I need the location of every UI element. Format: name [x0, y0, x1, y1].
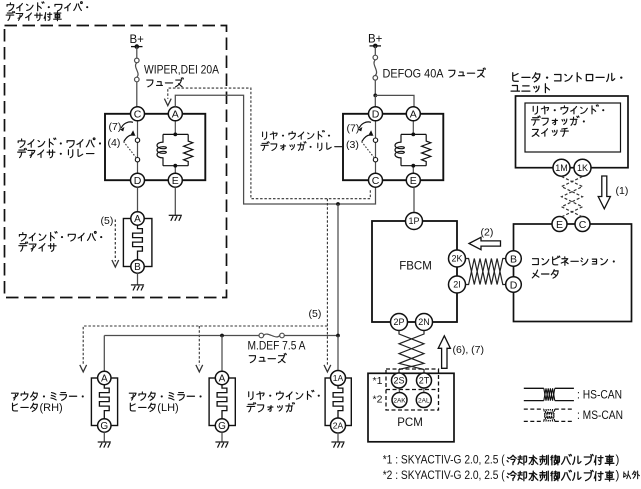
ground (de-icer): [131, 285, 144, 291]
FBCM terminal 1P: [406, 213, 423, 230]
flow arrow (6),(7): [438, 336, 450, 369]
relay K2 rear defogger terminal D: [369, 107, 383, 121]
wire drop to LH mirror heater: [221, 336, 223, 372]
FBCM box: [372, 221, 457, 322]
relay K2 rear defogger coil feed stubs: [412, 121, 414, 135]
de-icer terminal B: [131, 260, 144, 273]
svg-text:(3): (3): [346, 139, 359, 151]
FBCM terminal 2I: [449, 276, 466, 293]
svg-text:1K: 1K: [577, 163, 588, 173]
FBCM terminal 2K: [449, 250, 466, 267]
svg-text:G: G: [100, 421, 108, 432]
wire relay E to ground: [174, 187, 176, 215]
wire relay E to FBCM 1P: [413, 187, 415, 212]
svg-text:D: D: [134, 175, 142, 187]
node defog feed split: [373, 94, 377, 98]
svg-text:E: E: [172, 175, 179, 187]
relay K1 wiper de-icer switch contacts: [135, 138, 139, 142]
flow arrow (2): [469, 237, 501, 249]
wire 2S to 2AK: [398, 388, 401, 393]
svg-text:2S: 2S: [393, 376, 404, 386]
svg-text:(1): (1): [616, 185, 629, 197]
fuse WIPER.DEI 20A: [135, 58, 140, 82]
FBCM terminal 2P: [391, 314, 408, 331]
svg-text:A: A: [219, 374, 226, 385]
svg-text:DEFOG 40A: DEFOG 40A: [383, 69, 444, 81]
combination meter box: [514, 224, 632, 322]
meter terminal B: [506, 251, 522, 267]
svg-text:(2): (2): [481, 226, 494, 238]
wire DEFOG relay C feed to wiper relay A and M.DEF line: [175, 95, 375, 204]
flow path dotted: down to heater loads: [326, 199, 328, 366]
control unit terminal 1K: [574, 159, 591, 176]
label wind wiper de-icer: [19, 232, 102, 242]
svg-text:*2 : SKYACTIV-G 2.0, 2.5 (: *2 : SKYACTIV-G 2.0, 2.5 (: [383, 470, 505, 482]
meter terminal C: [575, 217, 590, 232]
M.DEF fused supply line: [104, 335, 259, 337]
relay K2 rear defogger coil: [411, 133, 415, 137]
svg-text:(4): (4): [108, 137, 121, 149]
relay K2 rear defogger terminal A: [406, 107, 420, 121]
HS-CAN twisted pair FBCM to combination meter: [466, 259, 507, 285]
relay K1 wiper de-icer actuation arrow (7): [121, 122, 133, 128]
PCM terminal 2T: [417, 373, 432, 388]
wire B+ to fuse: [374, 46, 376, 55]
relay K2 rear defogger actuation arrow (lower): [362, 135, 372, 141]
svg-text:): ): [616, 470, 620, 482]
PCM terminal 2AL: [416, 393, 431, 408]
PCM terminal 2AK: [392, 393, 407, 408]
label outer mirror heater RH: [11, 392, 83, 400]
relay K1 wiper de-icer terminal C: [131, 107, 145, 121]
label: wind wiper de-icer equipped cars: [7, 2, 88, 11]
meter terminal D: [506, 277, 522, 293]
svg-text:1A: 1A: [333, 373, 344, 383]
fuse M.DEF 7.5A: [259, 333, 284, 338]
svg-text:2K: 2K: [451, 254, 462, 264]
rear window defogger switch box: [525, 103, 621, 152]
relay K1 wiper de-icer terminal D: [131, 173, 145, 187]
svg-text:(5): (5): [101, 215, 114, 227]
svg-text:B+: B+: [368, 34, 383, 46]
wire 2T to 2AL: [423, 388, 425, 393]
relay K2 rear defogger switch alternate position (dotted arm): [362, 142, 375, 158]
flow path dotted: branch to LH mirror heater: [198, 326, 200, 365]
svg-text:E: E: [410, 175, 417, 187]
PCM connector variant dashed box: [386, 369, 439, 410]
outer mirror heater RH: [91, 378, 117, 426]
wiper de-icer heater element: [123, 219, 151, 267]
node junction on feed line: [336, 202, 340, 206]
svg-text:1P: 1P: [408, 216, 419, 226]
svg-text:(7): (7): [347, 123, 360, 135]
de-icer terminal A: [131, 212, 144, 225]
flow path dotted: branch to mirror heaters: [83, 326, 327, 365]
node B+ (wiper): [131, 46, 143, 48]
relay K1 wiper de-icer actuation arrow (lower): [124, 135, 134, 141]
wire B+ to fuse: [136, 47, 138, 59]
svg-text:WIPER,DEI 20A: WIPER,DEI 20A: [144, 65, 219, 77]
svg-text:D: D: [372, 109, 380, 121]
svg-text:*1: *1: [373, 375, 383, 387]
relay K1 wiper de-icer coil parallel resistor: [184, 134, 193, 165]
flow arrow (1): [598, 176, 610, 209]
ground (wiper relay coil): [169, 215, 182, 221]
control unit terminal 1M: [553, 159, 570, 176]
svg-text:E: E: [556, 219, 563, 231]
wire de-icer B to ground: [137, 273, 139, 285]
flow arrow (5) at de-icer: [114, 220, 116, 262]
svg-text:A: A: [172, 109, 179, 121]
relay K1 wiper de-icer coil feed stubs: [174, 121, 176, 135]
svg-text:2T: 2T: [419, 376, 430, 386]
svg-text:FBCM: FBCM: [399, 261, 432, 273]
wire fuse to relay: [374, 80, 376, 95]
rear window defogger grid: [325, 378, 351, 426]
FBCM terminal 2N: [416, 314, 433, 331]
svg-text:PCM: PCM: [397, 417, 423, 429]
relay box K1 wiper de-icer: [105, 114, 205, 180]
svg-text:: HS-CAN: : HS-CAN: [577, 387, 622, 401]
wire drop to RH mirror heater: [103, 336, 105, 372]
svg-text:(RH): (RH): [40, 402, 63, 414]
node B+ (defog): [370, 45, 382, 47]
relay K2 rear defogger terminal E: [406, 173, 420, 187]
svg-text:D: D: [510, 279, 518, 291]
node defogger tap: [336, 334, 340, 338]
fuse DEFOG 40A: [373, 55, 378, 80]
label rear window defogger: [249, 390, 320, 399]
label wiper de-icer relay: [18, 138, 101, 148]
legend HS-CAN symbol: [524, 388, 574, 400]
dashed variant enclosure box: [5, 26, 227, 298]
wire drop to rear defogger: [337, 336, 339, 371]
relay K1 wiper de-icer coil: [173, 133, 177, 137]
svg-text:A: A: [410, 109, 417, 121]
MS-CAN twisted pair control unit to meter: [562, 177, 583, 217]
wire to relay terminal D: [374, 95, 376, 106]
relay K2 rear defogger terminal C: [369, 173, 383, 187]
relay K2 rear defogger internal wire (switch column): [375, 121, 377, 173]
svg-text:(5): (5): [309, 308, 322, 320]
svg-text:(7): (7): [109, 121, 122, 133]
relay K1 wiper de-icer internal wire (switch column): [137, 121, 139, 173]
relay K2 rear defogger coil parallel resistor: [422, 134, 431, 165]
wire junction down to M.DEF fuse line: [337, 204, 339, 336]
svg-text:): ): [616, 454, 620, 466]
svg-text:: MS-CAN: : MS-CAN: [577, 408, 623, 422]
svg-text:2A: 2A: [333, 421, 344, 431]
svg-text:C: C: [372, 175, 380, 187]
heater control unit box: [516, 96, 629, 168]
wire fuse to relay C: [136, 82, 138, 107]
node LH tap: [220, 334, 224, 338]
svg-text:C: C: [579, 219, 587, 231]
outer mirror heater LH: [209, 378, 235, 426]
svg-text:2P: 2P: [393, 317, 404, 327]
relay box K2 rear defogger: [343, 114, 443, 180]
label outer mirror heater LH: [129, 392, 201, 400]
relay K2 rear defogger actuation arrow (7): [359, 122, 371, 128]
svg-text:A: A: [134, 214, 141, 225]
svg-text:2AK: 2AK: [393, 397, 406, 404]
svg-text:*2: *2: [373, 394, 383, 406]
svg-text:B: B: [134, 262, 141, 273]
label rear window defogger relay: [263, 131, 330, 140]
flow path dotted: DEFOG C to wiper relay A: [168, 88, 370, 199]
meter terminal E: [552, 217, 567, 232]
wire relay D to de-icer: [137, 187, 139, 212]
wire to relay terminal A: [375, 95, 414, 106]
relay K1 wiper de-icer terminal A: [168, 107, 182, 121]
svg-text:B: B: [510, 253, 517, 265]
heater control unit label: [513, 73, 623, 82]
svg-text:C: C: [134, 109, 142, 121]
svg-text:2N: 2N: [418, 317, 430, 327]
svg-text:B+: B+: [130, 34, 145, 46]
svg-text:(LH): (LH): [157, 402, 178, 414]
relay K1 wiper de-icer switch alternate position (dotted arm): [124, 142, 137, 158]
svg-text:1M: 1M: [555, 163, 568, 173]
HS-CAN twisted pair FBCM to PCM: [399, 331, 424, 373]
relay K2 rear defogger switch contacts: [373, 138, 377, 142]
svg-text:2AL: 2AL: [418, 397, 430, 404]
svg-text:(6), (7): (6), (7): [453, 344, 485, 356]
svg-text:G: G: [218, 421, 226, 432]
svg-text:2I: 2I: [453, 280, 461, 290]
PCM terminal 2S: [392, 373, 407, 388]
svg-text:A: A: [101, 374, 108, 385]
relay K1 wiper de-icer terminal E: [168, 173, 182, 187]
svg-text:*1 : SKYACTIV-G 2.0, 2.5 (: *1 : SKYACTIV-G 2.0, 2.5 (: [383, 454, 505, 466]
svg-text:M.DEF 7.5 A: M.DEF 7.5 A: [248, 341, 306, 353]
PCM box: [368, 373, 454, 442]
legend MS-CAN symbol: [524, 409, 574, 421]
